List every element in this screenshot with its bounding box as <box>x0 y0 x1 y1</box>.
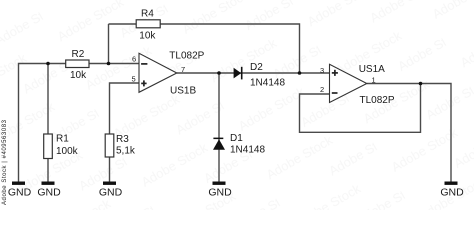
svg-text:TL082P: TL082P <box>169 51 204 62</box>
op-amp U1B <box>132 51 205 97</box>
svg-text:10k: 10k <box>70 70 87 81</box>
svg-text:5,1k: 5,1k <box>116 145 136 156</box>
node junction dots <box>46 62 422 86</box>
node J3 <box>217 71 221 75</box>
ground G4 <box>208 182 232 199</box>
svg-text:D2: D2 <box>250 62 263 73</box>
wire main input node <box>19 64 140 183</box>
svg-text:R2: R2 <box>72 49 85 60</box>
wire R1 branch <box>47 64 49 183</box>
svg-text:TL082P: TL082P <box>360 95 395 106</box>
wire pin5 / R3 branch <box>110 83 140 182</box>
wire D2 segment <box>219 72 300 74</box>
resistor R4 <box>136 9 160 42</box>
node J2 <box>107 62 111 66</box>
resistor R3 <box>105 134 136 157</box>
svg-text:1N4148: 1N4148 <box>230 144 265 155</box>
svg-text:US1A: US1A <box>359 64 385 75</box>
wire R4 branch up <box>108 24 110 64</box>
node J1 <box>46 62 50 66</box>
svg-text:7: 7 <box>181 65 185 74</box>
diode D1 <box>213 133 265 155</box>
svg-text:100k: 100k <box>56 146 79 157</box>
svg-text:GND: GND <box>8 187 32 199</box>
svg-text:GND: GND <box>440 187 464 199</box>
svg-text:10k: 10k <box>139 31 156 42</box>
ground G3 <box>99 182 123 199</box>
svg-text:US1B: US1B <box>170 85 196 96</box>
ground G1 <box>8 182 32 199</box>
resistor R2 <box>66 49 89 81</box>
svg-text:2: 2 <box>320 85 324 94</box>
svg-text:5: 5 <box>132 75 136 84</box>
wire US1A feedback loop <box>300 84 421 133</box>
wire pin3 US1A <box>300 72 330 74</box>
svg-text:D1: D1 <box>230 133 243 144</box>
node J5 <box>419 82 423 86</box>
svg-text:GND: GND <box>208 187 232 199</box>
wire U1B output <box>177 72 219 74</box>
svg-text:GND: GND <box>37 187 61 199</box>
svg-text:1: 1 <box>372 75 376 84</box>
wire D1 branch <box>218 73 220 182</box>
node J4 <box>298 71 302 75</box>
svg-text:R4: R4 <box>141 9 154 20</box>
svg-text:3: 3 <box>320 66 324 75</box>
svg-text:6: 6 <box>132 55 136 64</box>
svg-text:R1: R1 <box>56 134 69 145</box>
svg-text:1N4148: 1N4148 <box>250 78 285 89</box>
ground G5 <box>440 182 464 199</box>
wire top feedback rail <box>109 24 300 73</box>
svg-text:GND: GND <box>99 187 123 199</box>
resistor R1 <box>44 134 79 159</box>
ground G2 <box>37 182 61 199</box>
wire US1A output <box>367 84 451 183</box>
svg-text:R3: R3 <box>116 134 129 145</box>
op-amp US1A <box>320 64 395 106</box>
diode D2 <box>234 62 286 89</box>
